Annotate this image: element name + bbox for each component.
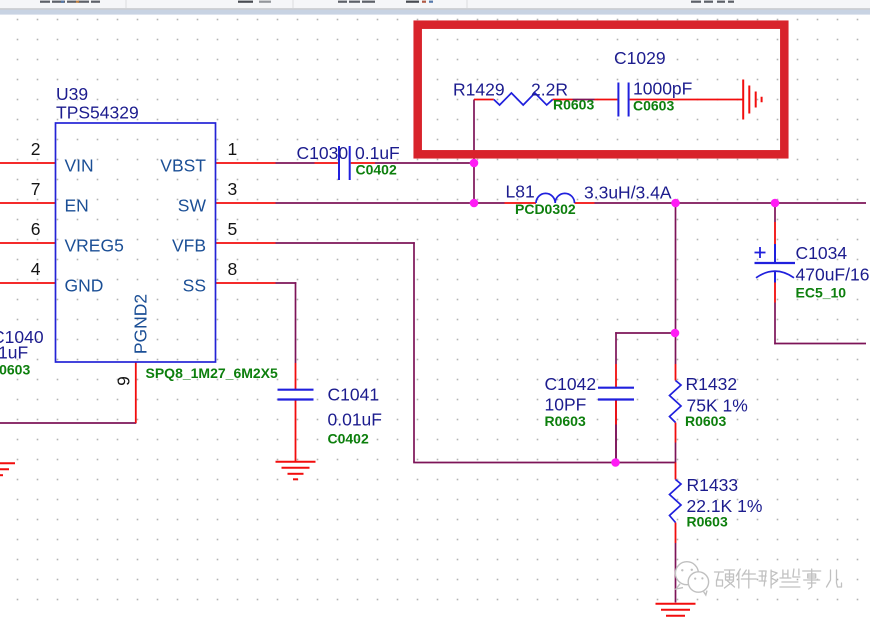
wire L81 to output	[595, 202, 867, 204]
svg-text:C1042: C1042	[545, 374, 597, 394]
svg-text:1: 1	[228, 139, 238, 159]
C1042 top pin	[615, 364, 617, 388]
watermark logo bubbles	[675, 562, 698, 585]
wire R1432 to VFB node	[675, 443, 677, 463]
wire C1034 bottom to right edge	[774, 343, 866, 345]
C1030 left pin	[315, 162, 338, 164]
wire SS to C1041	[295, 282, 297, 363]
svg-text:R1432: R1432	[686, 374, 738, 394]
op-amp U39 TPS54329 body	[56, 123, 216, 362]
R1429 right pin	[553, 99, 573, 101]
C1030 right pin	[351, 162, 375, 164]
junction node (474,203)	[470, 199, 479, 208]
svg-text:R1433: R1433	[687, 475, 739, 495]
pin stub left EN	[0, 202, 56, 204]
capacitor C1034 470uF/16 electrolytic	[774, 244, 776, 263]
pin stub left VREG5	[0, 242, 56, 244]
wire VBST to C1030	[276, 162, 315, 164]
wire R1433 to ground	[675, 543, 677, 603]
wire VFB to divider	[413, 462, 675, 464]
svg-text:GND: GND	[65, 275, 104, 295]
capacitor C1041 0.01uF	[278, 389, 314, 391]
svg-text:C0603: C0603	[0, 362, 30, 378]
svg-text:SS: SS	[183, 275, 206, 295]
svg-text:9: 9	[113, 376, 133, 386]
svg-text:R0603: R0603	[545, 413, 586, 429]
toolbar background strip	[0, 0, 870, 8]
L81 left pin	[505, 202, 537, 204]
svg-text:VREG5: VREG5	[65, 235, 124, 255]
svg-text:C1034: C1034	[796, 243, 848, 263]
ground (C1041)	[276, 461, 316, 463]
wire R1429 to C1029	[573, 99, 595, 101]
svg-text:U39: U39	[56, 84, 88, 104]
wire SW to L81	[276, 202, 505, 204]
wire VFB vertical	[413, 242, 415, 462]
R1429 left pin	[474, 99, 494, 101]
wire C1042 bottom	[615, 400, 617, 463]
wire vertical snubber to SW	[473, 100, 475, 204]
resistor R1432 75K 1%	[670, 381, 682, 423]
svg-text:C0402: C0402	[356, 162, 397, 178]
svg-text:R0603: R0603	[553, 97, 594, 113]
junction node (675,333)	[671, 329, 680, 338]
pin stub right VBST	[216, 162, 276, 164]
junction node (775,203)	[771, 199, 780, 208]
C1042 bottom pin	[615, 400, 617, 425]
svg-text:EN: EN	[65, 195, 89, 215]
svg-text:C1030: C1030	[297, 143, 349, 163]
svg-text:SPQ8_1M27_6M2X5: SPQ8_1M27_6M2X5	[146, 365, 279, 381]
svg-text:SW: SW	[178, 195, 207, 215]
wire output to C1034	[774, 203, 776, 222]
capacitor C1030 0.1uF	[338, 146, 340, 180]
C1041 bottom pin	[295, 400, 297, 462]
svg-text:PCD0302: PCD0302	[515, 201, 576, 217]
pin stub left VIN	[0, 162, 56, 164]
svg-text:6: 6	[31, 219, 41, 239]
svg-text:VBST: VBST	[160, 155, 206, 175]
svg-text:1uF: 1uF	[0, 343, 28, 363]
C1034 top pin	[774, 222, 776, 244]
wire C1042 tap	[615, 332, 675, 334]
toolbar text fragments (cut off)	[40, 1, 50, 3]
svg-text:3.3uH/3.4A: 3.3uH/3.4A	[584, 183, 672, 203]
svg-text:R0603: R0603	[685, 413, 726, 429]
svg-text:10PF: 10PF	[545, 395, 587, 415]
svg-text:C0603: C0603	[633, 98, 674, 114]
svg-text:0.1uF: 0.1uF	[355, 143, 400, 163]
wire VFB horizontal	[276, 242, 415, 244]
L81 right pin	[575, 202, 595, 204]
capacitor C1029 1000pF	[617, 83, 619, 117]
ground (C1040, clipped at left edge)	[0, 462, 15, 464]
svg-text:2: 2	[31, 139, 41, 159]
wire C1034 bottom vertical	[774, 303, 776, 345]
R1432 top pin	[675, 364, 677, 381]
svg-text:PGND2: PGND2	[130, 294, 150, 354]
junction node (474,163)	[470, 159, 479, 168]
svg-text:3: 3	[228, 179, 238, 199]
C1034 bottom pin	[774, 283, 776, 303]
junction node (615.5,462.5)	[611, 458, 620, 467]
C1029 left pin	[595, 99, 618, 101]
svg-text:C0402: C0402	[328, 431, 369, 447]
resistor R1433 22.1K 1%	[670, 480, 682, 523]
svg-text:470uF/16: 470uF/16	[796, 265, 870, 285]
pin stub right VFB	[216, 242, 276, 244]
wire SS horizontal	[276, 282, 297, 284]
R1433 top pin	[675, 463, 677, 480]
pin stub left GND	[0, 282, 56, 284]
R1433 bottom pin	[675, 523, 677, 544]
ground (snubber, vertical-bar earth)	[742, 80, 744, 120]
svg-text:VIN: VIN	[65, 155, 94, 175]
pin 9 stub PGND2	[135, 362, 137, 423]
svg-text:TPS54329: TPS54329	[56, 103, 139, 123]
svg-text:5: 5	[228, 219, 238, 239]
wire C1042 to VFB node	[615, 425, 617, 463]
wire PGND2 net to left edge	[0, 422, 136, 424]
C1041 top pin	[295, 363, 297, 390]
ground (R1433)	[656, 603, 696, 605]
svg-text:8: 8	[228, 259, 238, 279]
red annotation box	[418, 25, 785, 155]
wire C1030 to snubber node	[375, 162, 474, 164]
svg-text:VFB: VFB	[172, 235, 206, 255]
pin stub right SS	[216, 282, 276, 284]
resistor R1429 2.2R	[494, 93, 553, 105]
wire C1042 top vertical	[615, 332, 617, 364]
svg-text:4: 4	[31, 259, 41, 279]
junction node (675.5,203)	[671, 199, 680, 208]
svg-text:0.01uF: 0.01uF	[328, 410, 382, 430]
svg-text:7: 7	[31, 179, 41, 199]
inductor L81 3.3uH/3.4A	[536, 193, 575, 203]
svg-text:R1429: R1429	[453, 80, 505, 100]
svg-text:L81: L81	[506, 182, 535, 202]
C1029 right pin to ground	[630, 99, 743, 101]
svg-text:EC5_10: EC5_10	[796, 285, 847, 301]
svg-text:R0603: R0603	[687, 514, 728, 530]
svg-text:C1041: C1041	[328, 385, 380, 405]
R1432 bottom pin	[675, 423, 677, 443]
capacitor C1042 10PF	[598, 387, 634, 389]
svg-text:1000pF: 1000pF	[633, 79, 692, 99]
wire SW down to R1432	[675, 203, 677, 364]
svg-text:C1029: C1029	[614, 48, 666, 68]
watermark text 硬件那些事儿 (stroke approximation)	[715, 569, 842, 589]
pin stub right SW	[216, 202, 276, 204]
